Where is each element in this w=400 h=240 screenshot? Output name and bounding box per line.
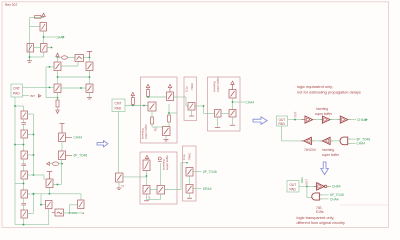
wire Q23 out bbox=[195, 106, 215, 114]
supply bar Q14 bbox=[47, 172, 52, 179]
supply arrow bbox=[56, 53, 59, 56]
svg-text:DRA4: DRA4 bbox=[203, 187, 212, 191]
transistor Q13 bbox=[21, 210, 28, 218]
junction bbox=[33, 193, 35, 195]
container box4 bbox=[183, 146, 197, 201]
svg-text:different from original circui: different from original circuitry bbox=[297, 221, 345, 225]
ground Q26 bbox=[230, 117, 235, 125]
wire Q27 down bbox=[146, 171, 148, 186]
nand U8 left bbox=[312, 193, 320, 200]
wire Q30 Q31 mid bbox=[189, 176, 191, 185]
wire Q15 Q16 bbox=[61, 142, 63, 152]
wire resistor row bbox=[58, 57, 90, 62]
container box1 bbox=[141, 77, 178, 143]
resistor R2 bbox=[56, 100, 59, 107]
svg-text:Rev 007: Rev 007 bbox=[5, 3, 17, 7]
junction bbox=[14, 144, 16, 146]
wire Q12 out bbox=[28, 193, 34, 195]
transistor Q5 bbox=[86, 62, 93, 71]
buffer U1 bbox=[305, 116, 313, 123]
wire Q8 out bbox=[24, 114, 34, 175]
capacitor C4 bbox=[158, 157, 162, 162]
svg-text:*4: *4 bbox=[121, 184, 124, 188]
resistor R3 bbox=[53, 162, 59, 166]
wire gate Q4 bbox=[46, 67, 58, 98]
big arrow down bbox=[321, 162, 329, 175]
inverter U7 bbox=[317, 183, 325, 190]
wire Q17 gate bbox=[41, 194, 46, 205]
transistor Q20 bbox=[167, 92, 174, 101]
wire C2 bbox=[23, 159, 25, 171]
svg-text:PAD: PAD bbox=[279, 122, 286, 126]
wire rail 194 bbox=[34, 194, 82, 200]
junction bbox=[33, 134, 35, 136]
junction bbox=[147, 96, 149, 98]
label CHA q15 bbox=[66, 136, 73, 138]
svg-text:74HC: 74HC bbox=[188, 153, 192, 160]
junction bbox=[33, 154, 35, 156]
wire Q31 out bbox=[193, 188, 202, 190]
svg-text:6P_TO48: 6P_TO48 bbox=[203, 170, 217, 174]
pad CNT PAD2 bbox=[112, 99, 125, 112]
junction bbox=[23, 224, 25, 226]
supply arrow VCC bbox=[42, 13, 46, 17]
wire Q1 out bbox=[44, 31, 56, 44]
transistor Q3 bbox=[41, 44, 48, 53]
junction bbox=[43, 36, 45, 38]
resistor R6 bbox=[151, 117, 154, 124]
junction bbox=[203, 105, 205, 107]
wire Q14 down bbox=[49, 188, 51, 194]
svg-text:super buffer: super buffer bbox=[315, 112, 333, 116]
pad CNT PAD1 bbox=[11, 84, 23, 97]
wire R5 node bbox=[148, 97, 167, 99]
wire U7 label bbox=[327, 185, 331, 187]
transistor Q6 bbox=[54, 84, 61, 93]
junction bbox=[61, 163, 63, 165]
svg-text:74E,: 74E, bbox=[316, 206, 323, 210]
transistor Q12 bbox=[21, 190, 28, 198]
wire pad2 right bbox=[125, 105, 148, 107]
svg-text:74HC04: 74HC04 bbox=[304, 148, 316, 152]
ground box3 bbox=[144, 200, 149, 202]
wire pad1 to Q6 bbox=[23, 86, 55, 88]
transistor Q4 bbox=[54, 62, 61, 71]
svg-text:*2: *2 bbox=[148, 196, 151, 200]
resistor R1 bbox=[62, 56, 68, 59]
wire U6 in1 bbox=[348, 138, 356, 140]
capacitor C1 bbox=[22, 123, 27, 125]
wire pad2 down long bbox=[118, 112, 120, 174]
big arrow 1 bbox=[97, 141, 108, 147]
wire U1 U2 bbox=[313, 119, 323, 121]
wire box3 input bbox=[123, 176, 147, 178]
wire R3 node bbox=[50, 163, 63, 165]
wire pad out2 bbox=[299, 186, 317, 197]
wire box4 in bbox=[186, 162, 188, 164]
resistor R4 bbox=[132, 98, 135, 105]
transistor Q24 bbox=[229, 90, 236, 99]
svg-text:super buffer: super buffer bbox=[165, 155, 169, 170]
svg-text:E19a: E19a bbox=[316, 210, 324, 214]
junction bbox=[23, 183, 25, 185]
svg-text:OUT: OUT bbox=[305, 179, 309, 185]
wire tap 144 bbox=[15, 138, 24, 151]
svg-text:CNT: CNT bbox=[115, 102, 122, 106]
buffer U2 bbox=[322, 116, 330, 123]
junction bbox=[33, 193, 35, 195]
junction bbox=[57, 97, 59, 99]
transistor Q21 bbox=[148, 102, 156, 111]
wire R7 bbox=[169, 104, 177, 127]
wire box2 in bbox=[186, 97, 188, 106]
svg-text:CHA4: CHA4 bbox=[330, 197, 339, 201]
supply arrow R4 bbox=[131, 92, 134, 97]
wire R2 down bbox=[57, 107, 59, 110]
ground bbox=[27, 61, 32, 63]
junction bbox=[232, 101, 234, 103]
junction bbox=[89, 57, 91, 59]
wire Q29 out bbox=[165, 163, 188, 190]
ground box4 bbox=[187, 197, 192, 199]
pin stub osc left bbox=[52, 212, 55, 214]
svg-text:inverting: inverting bbox=[322, 148, 334, 152]
wire U3 label bbox=[348, 119, 356, 121]
svg-text:74HC: 74HC bbox=[190, 83, 194, 90]
junction bbox=[294, 119, 296, 121]
transistor Q7 bbox=[86, 84, 93, 93]
wire R6 bend bbox=[152, 124, 163, 127]
svg-text:CHA4: CHA4 bbox=[357, 142, 366, 146]
component X1 bbox=[75, 55, 84, 62]
junction bbox=[146, 175, 148, 177]
resistor R7 bbox=[168, 115, 171, 122]
pad OUT PAD1 bbox=[277, 116, 288, 126]
svg-text:CHA4: CHA4 bbox=[357, 118, 366, 122]
wire tap 183 bbox=[15, 179, 24, 190]
transistor Q31 bbox=[186, 185, 193, 194]
wire Q11 out bbox=[28, 174, 34, 176]
junction bbox=[49, 66, 51, 68]
wire cap col bbox=[160, 163, 162, 186]
capacitor C3 bbox=[22, 203, 27, 205]
wire Q28 Q29 bbox=[150, 189, 157, 191]
transistor Q15 bbox=[59, 133, 66, 142]
transistor Q29 bbox=[157, 186, 165, 195]
supply bar bbox=[87, 52, 92, 58]
wire Q10 out bbox=[28, 154, 34, 156]
pin stubs row2 bbox=[301, 139, 351, 143]
svg-text:6P_TO48: 6P_TO48 bbox=[74, 154, 88, 158]
transistor Q30 bbox=[186, 168, 193, 177]
junction bbox=[29, 56, 31, 58]
input arrow bbox=[47, 162, 50, 165]
wire Q24 out bbox=[233, 98, 246, 110]
supply arrow R5 bbox=[146, 84, 149, 89]
wire pad1 down bbox=[15, 97, 24, 225]
wire Q30 out bbox=[193, 171, 202, 173]
wire Q6 Q7 bbox=[61, 87, 86, 89]
wire VCC top bbox=[30, 18, 44, 61]
supply arrow Q24 bbox=[231, 81, 234, 89]
transistor Q11 bbox=[21, 171, 28, 179]
wire Q18 gate bbox=[70, 205, 78, 213]
transistor Q19 bbox=[116, 173, 124, 182]
svg-text:CHA4: CHA4 bbox=[332, 185, 341, 189]
svg-text:CNT: CNT bbox=[13, 87, 20, 91]
svg-text:super buffer: super buffer bbox=[216, 77, 220, 92]
nand U6 left bbox=[340, 137, 348, 145]
svg-text:OUT: OUT bbox=[290, 183, 297, 187]
svg-text:CHA: CHA bbox=[56, 35, 64, 39]
wire pad down bbox=[282, 126, 304, 141]
svg-text:0.1u: 0.1u bbox=[185, 86, 189, 92]
wire Q16 node bbox=[61, 160, 63, 185]
wire C1 Q9 bbox=[23, 124, 25, 130]
transistor Q22 bbox=[163, 127, 171, 136]
wire pad1 label bbox=[23, 95, 30, 97]
svg-text:super buffer: super buffer bbox=[322, 153, 340, 157]
container box5 bbox=[208, 77, 241, 131]
container box2 bbox=[184, 77, 197, 121]
junction bbox=[80, 87, 82, 89]
junction bbox=[49, 87, 51, 89]
down arrow bbox=[56, 110, 59, 113]
wire gate Q14 top bbox=[34, 175, 45, 180]
junction bbox=[69, 212, 71, 214]
pin stubs row1 bbox=[301, 119, 351, 121]
junction bbox=[14, 105, 16, 107]
svg-text:super buffer: super buffer bbox=[144, 124, 148, 139]
svg-text:INT: INT bbox=[30, 94, 35, 98]
supply bar col62 bbox=[60, 124, 65, 133]
wire box4 gnd bbox=[189, 193, 191, 198]
buffer U3 bbox=[340, 116, 348, 123]
frame divider line bbox=[340, 204, 389, 206]
wire Q23 gnd bbox=[191, 110, 193, 116]
junction node bbox=[57, 57, 59, 59]
svg-text:OUT: OUT bbox=[293, 111, 297, 117]
transistor Q2 bbox=[27, 44, 34, 53]
svg-text:logic transparent only,: logic transparent only, bbox=[297, 215, 335, 220]
label 6P_TO bbox=[66, 154, 73, 156]
junction bbox=[132, 105, 134, 107]
pin stubs U7 U8 bbox=[314, 186, 330, 199]
wire Q14 gate bbox=[53, 184, 62, 186]
bubble U7 bbox=[324, 185, 327, 188]
junction bbox=[89, 76, 91, 78]
junction bbox=[168, 112, 170, 114]
oscillator X2 bbox=[55, 209, 64, 216]
ground Q19 bbox=[117, 182, 122, 190]
svg-text:logic equivalent only,: logic equivalent only, bbox=[297, 84, 333, 89]
svg-text:CHA4: CHA4 bbox=[74, 136, 83, 140]
wire U5 U6 bbox=[330, 140, 340, 142]
transistor Q16 bbox=[59, 151, 66, 160]
wire row77 bbox=[58, 71, 90, 85]
wire U8 in1 bbox=[319, 194, 328, 196]
transistor Q9 bbox=[21, 130, 28, 138]
wire U6 in2 bbox=[348, 142, 356, 144]
transistor Q18 bbox=[78, 200, 85, 209]
junction bbox=[143, 105, 145, 107]
junction bbox=[57, 184, 59, 186]
wire Q13 bottom bbox=[15, 209, 49, 225]
transistor Q1 bbox=[40, 23, 47, 32]
wire Q25 Q26 bbox=[221, 113, 229, 115]
wire box3 gnd bbox=[147, 194, 161, 200]
svg-text:CHA4: CHA4 bbox=[246, 100, 255, 104]
junction bbox=[51, 47, 53, 49]
wire U2 U3 bbox=[330, 119, 340, 121]
wire C3 bbox=[23, 198, 25, 210]
junction bbox=[49, 193, 51, 195]
wire U8 in2 bbox=[319, 198, 328, 200]
svg-text:PAD: PAD bbox=[290, 187, 297, 191]
ground Q23 bbox=[189, 115, 194, 117]
transistor Q26 bbox=[229, 110, 236, 118]
ground Q22 bbox=[164, 136, 169, 142]
transistor Q25 bbox=[215, 110, 222, 118]
supply VCC label bbox=[35, 16, 42, 19]
junction bbox=[306, 186, 308, 188]
ground Q7 bbox=[87, 97, 92, 99]
supply arrow Q27 bbox=[145, 155, 148, 160]
wire U4 U5 bbox=[311, 140, 322, 142]
svg-text:PAD: PAD bbox=[115, 106, 122, 110]
junction bbox=[33, 174, 35, 176]
transistor Q23 bbox=[188, 103, 195, 111]
ground Q25 bbox=[215, 117, 220, 127]
buffer U4 left bbox=[304, 137, 312, 144]
capacitor C2 bbox=[22, 164, 27, 166]
buffer U5 left bbox=[322, 137, 330, 144]
wire Q4 feedback bbox=[61, 58, 90, 67]
wire Q6 drain bbox=[58, 93, 90, 101]
wire Q9 out bbox=[28, 134, 34, 136]
svg-text:R2: R2 bbox=[154, 127, 158, 131]
resistor R5 bbox=[147, 90, 150, 97]
svg-text:inverting: inverting bbox=[316, 107, 328, 111]
big arrow 2 bbox=[253, 117, 267, 125]
container box3 bbox=[140, 152, 177, 204]
transistor Q17 bbox=[46, 200, 53, 208]
svg-text:0.1u: 0.1u bbox=[182, 154, 186, 160]
junction bbox=[57, 76, 59, 78]
wire X2 right bbox=[64, 212, 85, 214]
svg-text:not for estimating propagation: not for estimating propagation delays bbox=[297, 89, 361, 94]
pad OUT PAD2 bbox=[287, 181, 299, 193]
svg-text:CLK: CLK bbox=[72, 211, 78, 215]
wire Q2 Q3 bbox=[30, 48, 52, 61]
svg-text:DRA: DRA bbox=[300, 177, 304, 183]
wire pad out1 bbox=[288, 119, 306, 121]
transistor Q14 bbox=[46, 179, 53, 188]
transistor Q8 bbox=[21, 111, 28, 119]
transistor Q10 bbox=[21, 151, 28, 159]
transistor Q27 bbox=[143, 160, 150, 171]
wire Q13 gate bbox=[28, 194, 34, 213]
wire Q20 out bbox=[174, 96, 187, 98]
svg-text:PAD: PAD bbox=[13, 92, 20, 96]
junction bbox=[40, 204, 42, 206]
wire Q21 down bbox=[151, 111, 153, 117]
junction bbox=[23, 144, 25, 146]
supply arrow Q20 bbox=[168, 84, 171, 92]
transistor Q28 bbox=[143, 186, 150, 195]
